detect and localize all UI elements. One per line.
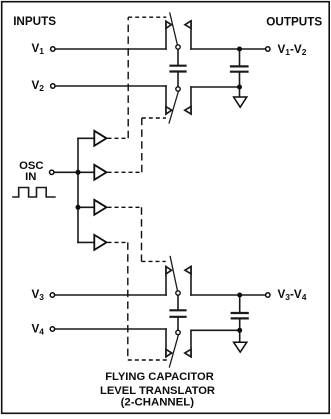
svg-text:(2-CHANNEL): (2-CHANNEL) xyxy=(121,396,195,408)
svg-text:IN: IN xyxy=(25,171,36,183)
svg-text:INPUTS: INPUTS xyxy=(13,15,56,28)
svg-text:FLYING CAPACITOR: FLYING CAPACITOR xyxy=(105,371,214,383)
svg-text:OUTPUTS: OUTPUTS xyxy=(266,15,322,28)
